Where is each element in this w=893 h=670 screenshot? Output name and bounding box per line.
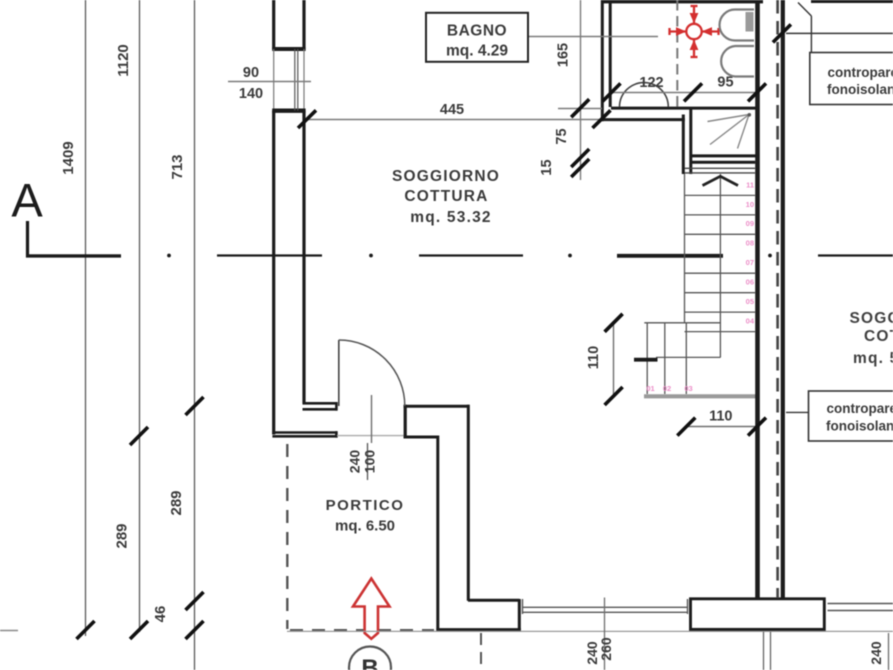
svg-text:BAGNO: BAGNO: [447, 23, 507, 40]
svg-text:140: 140: [239, 86, 263, 102]
svg-text:COTTURA: COTTURA: [404, 188, 488, 205]
svg-text:11: 11: [746, 180, 754, 189]
svg-text:05: 05: [746, 297, 754, 306]
svg-text:75: 75: [554, 128, 570, 144]
svg-text:713: 713: [169, 154, 186, 179]
svg-text:100: 100: [362, 450, 378, 474]
svg-text:09: 09: [746, 219, 754, 228]
svg-text:mq. 6.50: mq. 6.50: [335, 518, 395, 535]
svg-text:contropareti: contropareti: [828, 65, 893, 80]
svg-text:165: 165: [556, 43, 572, 67]
svg-text:fonoisolanti: fonoisolanti: [827, 82, 893, 97]
svg-text:SOGGIORNO: SOGGIORNO: [850, 310, 893, 327]
svg-text:90: 90: [243, 65, 259, 81]
svg-text:mq. 53.32: mq. 53.32: [853, 350, 893, 367]
svg-text:07: 07: [746, 258, 754, 267]
svg-text:08: 08: [746, 239, 754, 248]
svg-text:01: 01: [646, 384, 654, 393]
svg-text:PORTICO: PORTICO: [326, 497, 405, 514]
svg-text:46: 46: [152, 606, 169, 623]
svg-text:240: 240: [347, 450, 363, 474]
svg-text:95: 95: [717, 75, 733, 91]
svg-text:mq. 53.32: mq. 53.32: [410, 209, 491, 226]
svg-text:06: 06: [746, 278, 754, 287]
svg-text:04: 04: [746, 317, 755, 326]
svg-text:03: 03: [684, 384, 692, 393]
svg-text:10: 10: [746, 200, 754, 209]
svg-text:SOGGIORNO: SOGGIORNO: [392, 168, 500, 185]
svg-text:B: B: [361, 655, 378, 670]
svg-text:289: 289: [168, 490, 185, 515]
svg-text:240: 240: [584, 641, 600, 665]
svg-text:contropareti: contropareti: [827, 401, 893, 416]
svg-text:289: 289: [114, 523, 131, 548]
svg-text:15: 15: [539, 159, 555, 175]
svg-text:110: 110: [586, 346, 602, 369]
svg-text:fonoisolanti: fonoisolanti: [826, 419, 893, 434]
svg-text:260: 260: [598, 637, 614, 661]
svg-text:122: 122: [639, 75, 663, 91]
svg-text:110: 110: [709, 409, 732, 425]
svg-text:02: 02: [663, 384, 671, 393]
svg-text:A: A: [11, 174, 43, 227]
svg-text:mq. 4.29: mq. 4.29: [446, 43, 508, 60]
svg-text:445: 445: [440, 102, 464, 118]
svg-text:COTTURA: COTTURA: [864, 328, 893, 345]
svg-text:240: 240: [868, 641, 884, 665]
svg-text:1409: 1409: [60, 141, 77, 174]
svg-text:1120: 1120: [115, 44, 132, 77]
